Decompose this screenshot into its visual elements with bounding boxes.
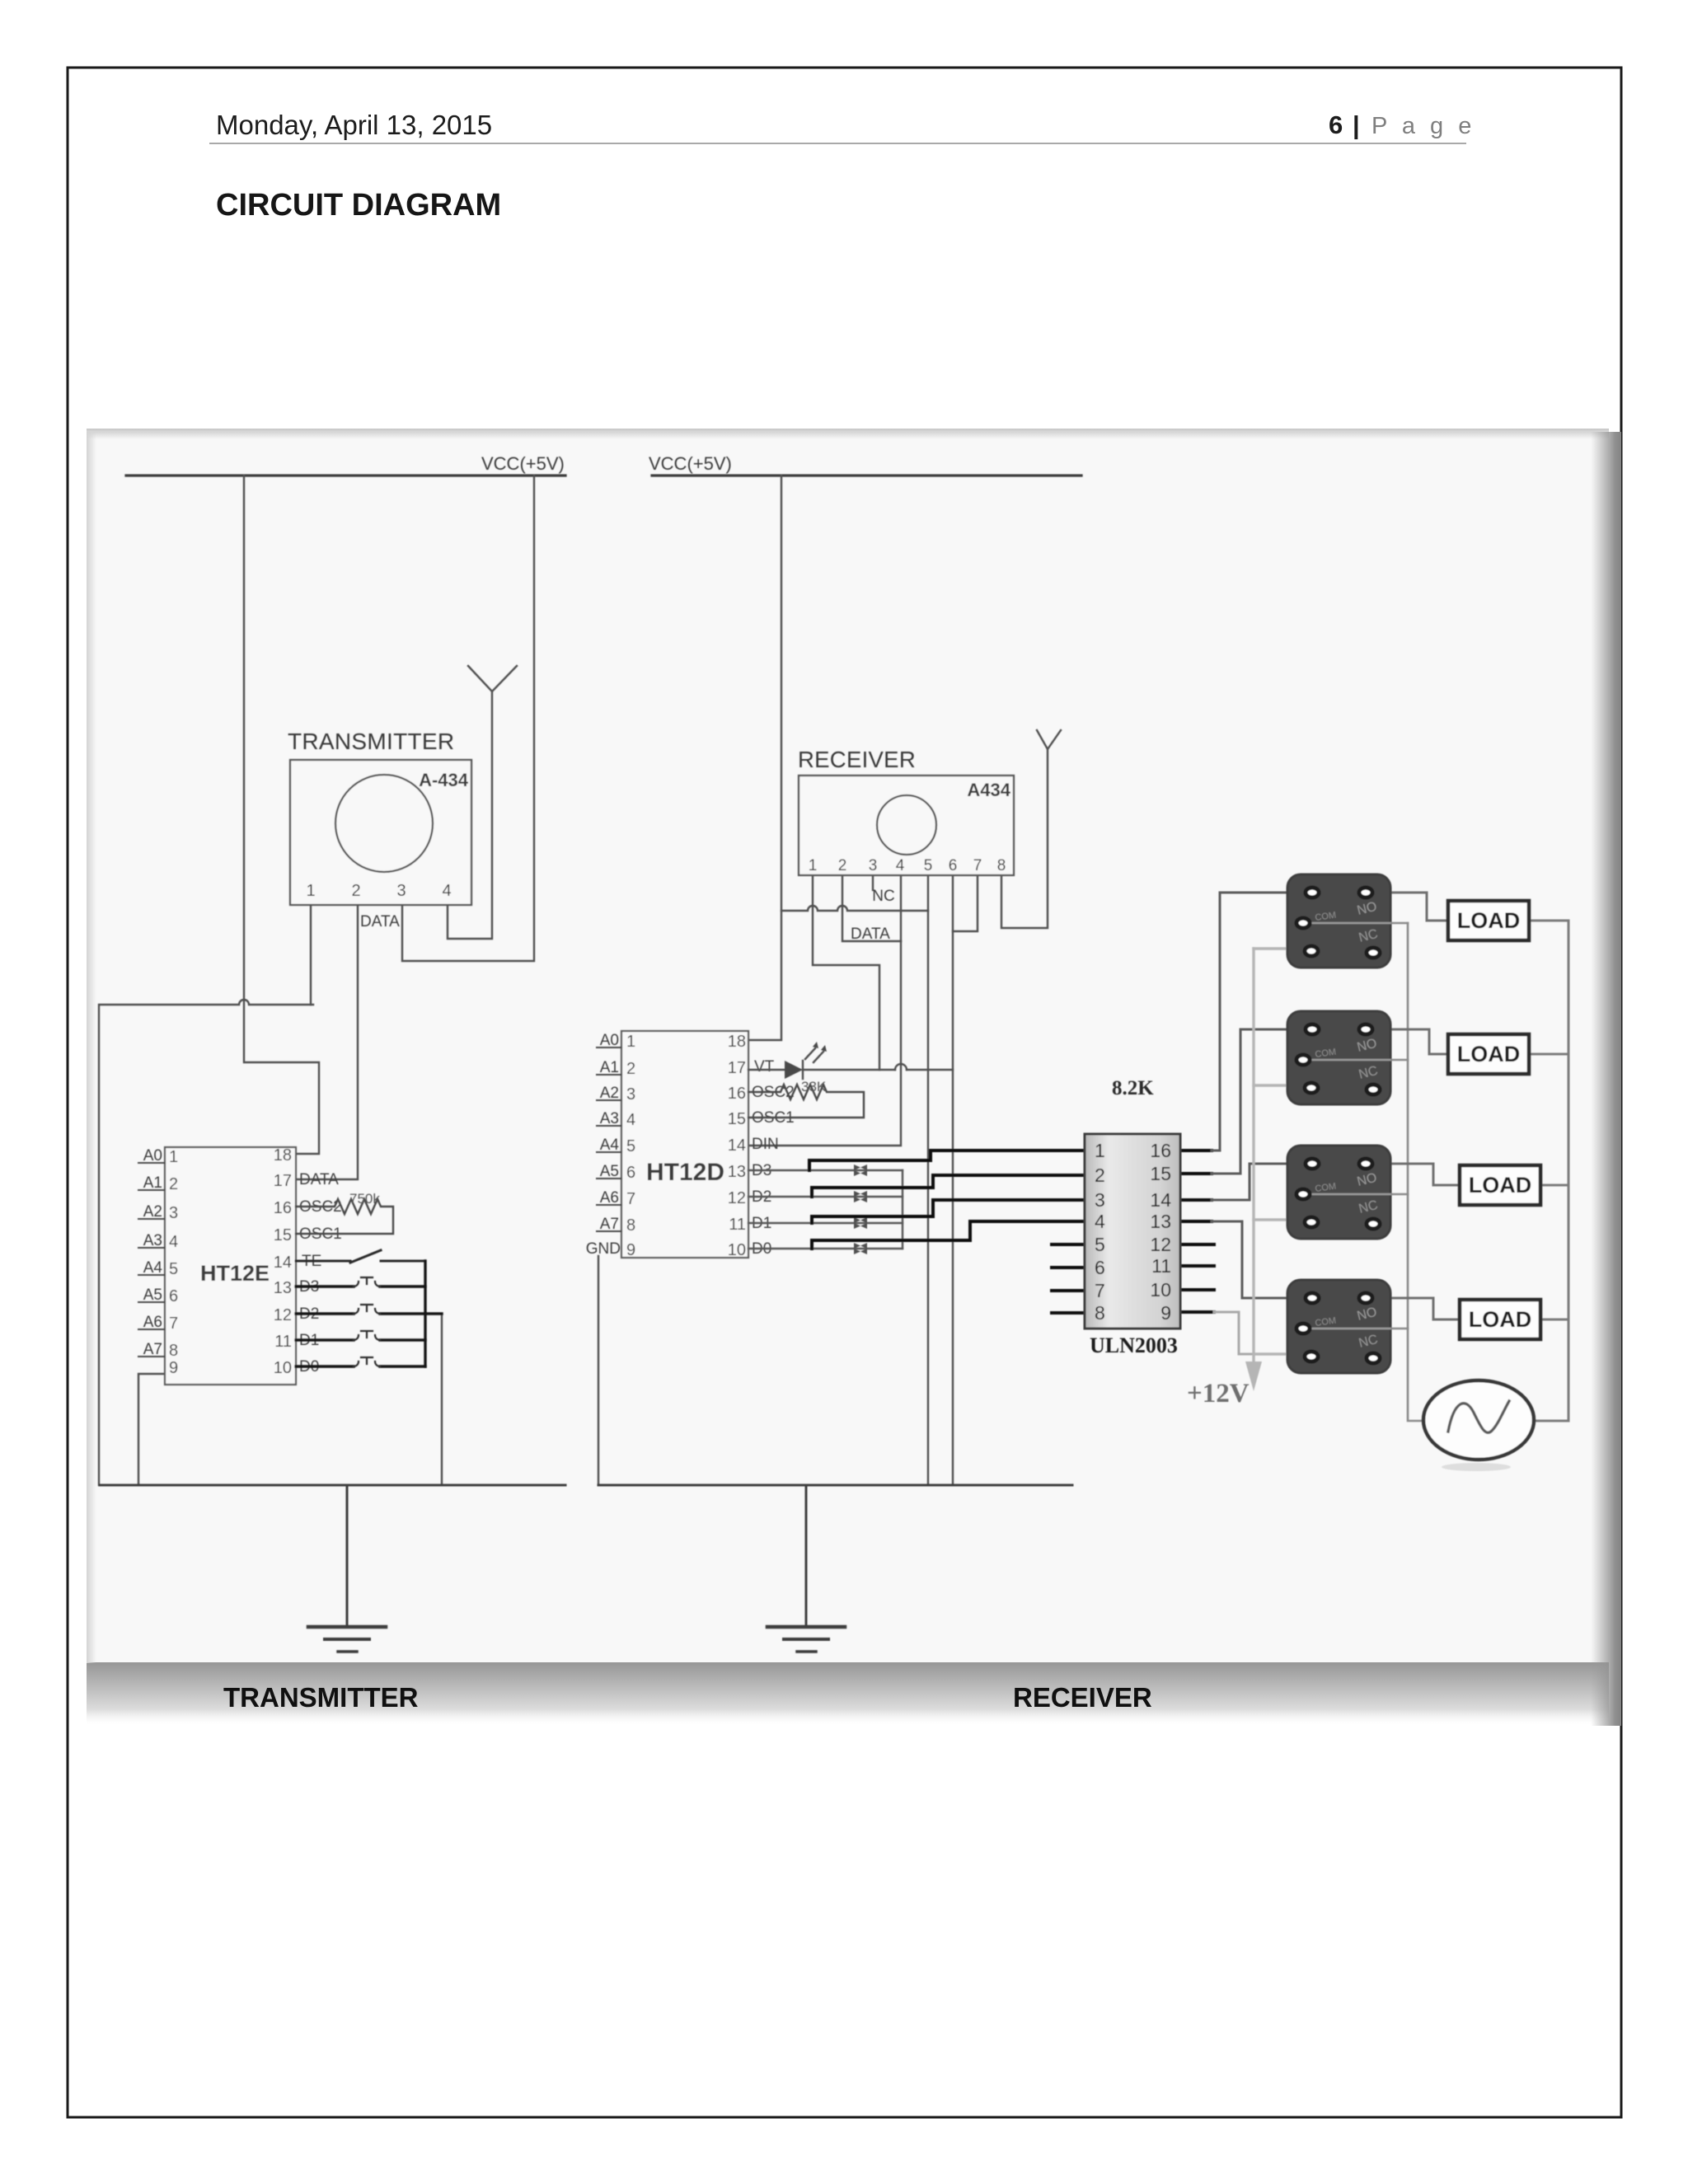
svg-text:8: 8 [626, 1216, 635, 1235]
svg-text:8: 8 [169, 1342, 178, 1360]
svg-text:11: 11 [274, 1333, 292, 1351]
svg-text:VCC(+5V): VCC(+5V) [481, 453, 565, 474]
svg-text:4: 4 [896, 857, 905, 874]
svg-text:4: 4 [1095, 1211, 1105, 1232]
svg-text:A5: A5 [143, 1286, 162, 1304]
svg-text:6: 6 [169, 1287, 178, 1305]
svg-text:9: 9 [626, 1241, 635, 1259]
svg-text:16: 16 [1150, 1140, 1171, 1161]
svg-text:5: 5 [169, 1260, 178, 1278]
svg-text:DATA: DATA [299, 1171, 339, 1188]
svg-text:A1: A1 [600, 1059, 619, 1076]
svg-text:DIN: DIN [752, 1136, 779, 1153]
svg-text:HT12E: HT12E [200, 1261, 270, 1286]
svg-text:15: 15 [1150, 1163, 1171, 1184]
svg-text:CIRCUIT DIAGRAM: CIRCUIT DIAGRAM [216, 188, 501, 223]
svg-text:VT: VT [754, 1058, 775, 1076]
svg-text:6: 6 [1095, 1257, 1105, 1278]
svg-text:A2: A2 [600, 1085, 619, 1102]
svg-text:5: 5 [626, 1137, 635, 1155]
svg-text:VCC(+5V): VCC(+5V) [649, 453, 732, 474]
svg-text:12: 12 [1150, 1234, 1171, 1255]
svg-text:1: 1 [1095, 1140, 1105, 1161]
svg-text:4: 4 [169, 1233, 178, 1251]
svg-text:4: 4 [442, 882, 451, 900]
svg-text:LOAD: LOAD [1469, 1307, 1532, 1332]
svg-text:RECEIVER: RECEIVER [1013, 1682, 1152, 1713]
svg-text:LOAD: LOAD [1457, 908, 1521, 933]
svg-text:A7: A7 [143, 1341, 162, 1358]
svg-text:17: 17 [728, 1059, 746, 1077]
svg-text:2: 2 [351, 882, 360, 900]
svg-text:A4: A4 [143, 1259, 163, 1277]
svg-text:1: 1 [626, 1033, 635, 1051]
svg-text:3: 3 [1095, 1189, 1105, 1211]
svg-text:2: 2 [838, 857, 847, 874]
svg-text:7: 7 [1095, 1280, 1105, 1301]
svg-text:A7: A7 [600, 1216, 619, 1233]
svg-text:LOAD: LOAD [1469, 1173, 1532, 1197]
svg-text:2: 2 [626, 1060, 635, 1078]
svg-text:2: 2 [1095, 1165, 1105, 1186]
svg-text:6: 6 [949, 857, 958, 874]
svg-text:TRANSMITTER: TRANSMITTER [288, 729, 454, 754]
svg-text:12: 12 [728, 1189, 746, 1207]
svg-text:14: 14 [1150, 1189, 1171, 1211]
svg-text:7: 7 [626, 1190, 635, 1208]
svg-text:DATA: DATA [360, 913, 400, 930]
svg-text:Monday, April 13, 2015: Monday, April 13, 2015 [216, 110, 492, 140]
svg-text:15: 15 [728, 1110, 746, 1128]
svg-text:1: 1 [809, 857, 818, 874]
svg-text:RECEIVER: RECEIVER [798, 747, 916, 772]
svg-text:1: 1 [169, 1148, 178, 1166]
svg-text:8: 8 [1095, 1302, 1105, 1324]
svg-text:10: 10 [274, 1359, 292, 1377]
svg-text:GND: GND [586, 1240, 621, 1258]
svg-text:8: 8 [997, 857, 1006, 874]
svg-text:9: 9 [1160, 1302, 1171, 1324]
svg-text:A6: A6 [143, 1314, 162, 1331]
svg-text:A2: A2 [143, 1203, 162, 1221]
svg-text:DATA: DATA [851, 926, 890, 943]
svg-text:2: 2 [169, 1175, 178, 1193]
svg-text:A3: A3 [600, 1110, 619, 1127]
svg-text:6: 6 [626, 1164, 635, 1182]
svg-text:10: 10 [1150, 1279, 1171, 1301]
svg-text:A3: A3 [143, 1232, 162, 1249]
svg-text:33K: 33K [801, 1079, 827, 1094]
svg-text:NC: NC [872, 888, 894, 905]
svg-text:P a g e: P a g e [1371, 113, 1475, 139]
svg-text:A4: A4 [600, 1137, 620, 1154]
svg-text:13: 13 [274, 1279, 292, 1297]
svg-text:14: 14 [274, 1254, 292, 1272]
svg-text:16: 16 [274, 1199, 292, 1217]
svg-text:11: 11 [729, 1216, 746, 1234]
svg-text:5: 5 [1095, 1234, 1105, 1255]
svg-text:750k: 750k [349, 1191, 380, 1207]
svg-text:17: 17 [274, 1172, 292, 1190]
svg-text:A1: A1 [143, 1174, 162, 1192]
svg-text:9: 9 [169, 1359, 178, 1377]
svg-text:13: 13 [1150, 1211, 1171, 1232]
svg-text:7: 7 [973, 857, 982, 874]
svg-text:7: 7 [169, 1315, 178, 1333]
svg-text:TRANSMITTER: TRANSMITTER [223, 1682, 419, 1713]
svg-text:3: 3 [626, 1085, 635, 1104]
svg-text:3: 3 [169, 1204, 178, 1222]
svg-text:14: 14 [728, 1137, 746, 1155]
svg-text:A0: A0 [143, 1147, 162, 1165]
svg-text:15: 15 [274, 1226, 292, 1244]
svg-text:A6: A6 [600, 1189, 619, 1207]
svg-text:ULN2003: ULN2003 [1090, 1333, 1178, 1357]
svg-text:1: 1 [306, 882, 315, 900]
svg-text:|: | [1353, 110, 1360, 139]
svg-text:A5: A5 [600, 1163, 619, 1180]
svg-text:5: 5 [924, 857, 933, 874]
svg-text:HT12D: HT12D [646, 1159, 724, 1186]
svg-text:8.2K: 8.2K [1112, 1077, 1154, 1099]
svg-text:4: 4 [626, 1111, 635, 1129]
svg-text:12: 12 [274, 1306, 292, 1324]
svg-text:11: 11 [1151, 1255, 1171, 1277]
svg-text:+12V: +12V [1187, 1379, 1250, 1408]
svg-text:6: 6 [1329, 110, 1343, 139]
svg-text:10: 10 [728, 1241, 746, 1259]
svg-text:18: 18 [728, 1033, 746, 1051]
svg-text:A0: A0 [600, 1032, 619, 1049]
svg-text:A-434: A-434 [419, 770, 469, 790]
svg-text:18: 18 [274, 1146, 292, 1165]
svg-text:13: 13 [728, 1163, 746, 1181]
svg-text:A434: A434 [967, 780, 1010, 800]
svg-text:LOAD: LOAD [1457, 1042, 1521, 1066]
svg-text:3: 3 [869, 857, 878, 874]
svg-text:3: 3 [396, 882, 406, 900]
svg-text:16: 16 [728, 1085, 746, 1103]
